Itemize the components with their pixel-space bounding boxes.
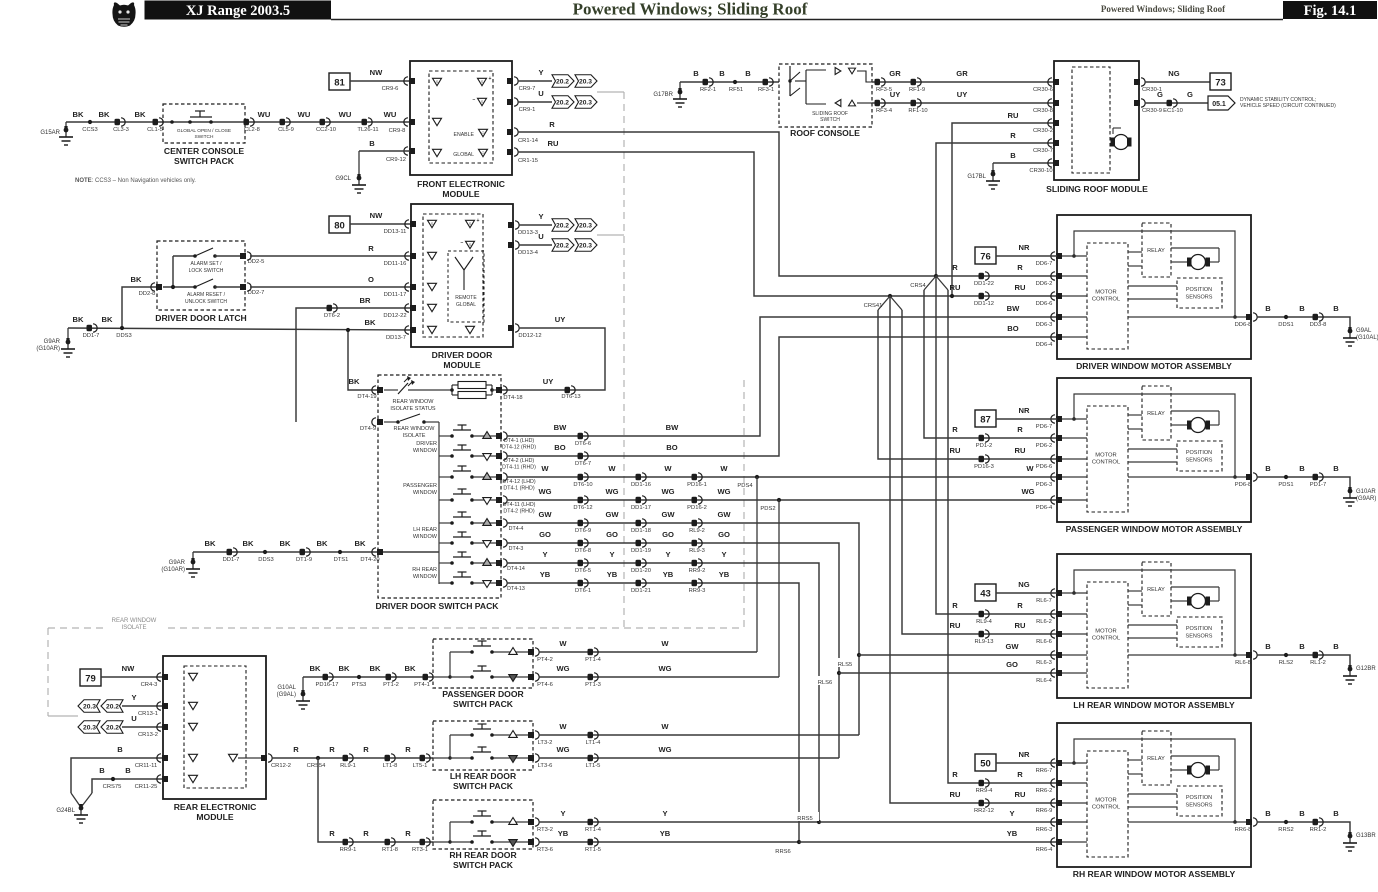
svg-text:BO: BO [1007, 324, 1018, 333]
pin RR6-7 [1036, 759, 1062, 774]
pin CR9-7 [507, 77, 535, 92]
svg-text:DT4-12 (RHD): DT4-12 (RHD) [502, 445, 536, 451]
svg-text:CRS75: CRS75 [103, 784, 122, 790]
svg-text:R: R [293, 745, 299, 754]
wire B to G9CL [359, 139, 410, 176]
wire BK/WU top row [66, 121, 410, 123]
svg-text:R: R [1017, 263, 1023, 272]
svg-text:GW: GW [661, 510, 675, 519]
svg-text:BO: BO [666, 443, 677, 452]
svg-text:CR30-7: CR30-7 [1033, 148, 1053, 154]
svg-text:PASSENGER DOOR: PASSENGER DOOR [442, 689, 524, 699]
lh rear window motor assembly motor control box [1087, 582, 1128, 688]
splice CRS54 [307, 756, 326, 769]
pin CR9-8 [389, 118, 415, 134]
svg-text:87: 87 [980, 415, 991, 426]
passenger window motor assembly motor [1187, 418, 1210, 433]
svg-text:RU: RU [1015, 790, 1026, 799]
rh rear window motor assembly relay box [1142, 731, 1171, 785]
svg-text:RU: RU [950, 446, 961, 455]
svg-text:RLS6: RLS6 [818, 680, 833, 686]
svg-text:B: B [1333, 464, 1339, 473]
pin CR9-12 [386, 147, 415, 163]
pin RT3-2 [528, 818, 553, 833]
passenger door switch pack box [433, 639, 533, 688]
svg-text:DT4-4: DT4-4 [509, 526, 524, 532]
svg-text:20.2: 20.2 [106, 724, 120, 731]
connector DT6-10 [573, 473, 592, 488]
svg-text:DD6-6: DD6-6 [1036, 301, 1053, 307]
svg-text:CCS3: CCS3 [82, 127, 97, 133]
switch pack common wire [438, 422, 440, 584]
svg-text:(G9AL): (G9AL) [277, 692, 296, 698]
wire YB to motor [799, 829, 1057, 842]
wire GO [507, 530, 839, 758]
svg-text:PD6-8: PD6-8 [1235, 482, 1251, 488]
pin DD6-2 [1036, 272, 1062, 287]
srm motor [1111, 128, 1132, 150]
wire B out [1257, 809, 1350, 834]
svg-text:POSITION: POSITION [1186, 795, 1212, 801]
svg-text:DD1-20: DD1-20 [631, 568, 651, 574]
svg-text:Y: Y [1009, 809, 1014, 818]
wire Y [519, 212, 552, 225]
svg-text:B: B [719, 69, 725, 78]
pin RR6-4 [1036, 838, 1062, 853]
pin CR9-1 [507, 98, 535, 113]
svg-text:PD16-1: PD16-1 [687, 482, 707, 488]
svg-text:Y: Y [538, 212, 543, 221]
svg-text:PT1-3: PT1-3 [585, 682, 601, 688]
svg-text:20.2: 20.2 [556, 242, 570, 249]
svg-text:B: B [1333, 809, 1339, 818]
svg-text:SWITCH PACK: SWITCH PACK [453, 781, 514, 791]
splice DTS1 [334, 550, 349, 563]
ddm triangle S+ [466, 218, 480, 228]
splice PDS4 [737, 475, 759, 489]
wire G [1145, 90, 1208, 103]
rear electronic module box [163, 656, 266, 799]
pin DD13-7 [386, 326, 416, 341]
ground G9AR upper [36, 328, 75, 357]
svg-text:DT4-2 (LHD): DT4-2 (LHD) [504, 458, 535, 464]
svg-text:RL6-7: RL6-7 [1036, 598, 1052, 604]
svg-text:RR6-9: RR6-9 [1036, 808, 1053, 814]
svg-text:SWITCH: SWITCH [195, 134, 214, 140]
svg-text:UNLOCK SWITCH: UNLOCK SWITCH [185, 299, 227, 305]
svg-text:BK: BK [73, 110, 84, 119]
label BK [355, 539, 366, 548]
connector RR1-2 [1310, 818, 1327, 833]
pin DT4-9 [360, 418, 383, 432]
svg-text:LT1-8: LT1-8 [383, 763, 398, 769]
fem triangle [433, 78, 442, 85]
svg-text:POSITION: POSITION [1186, 287, 1212, 293]
svg-text:DT4-12 (LHD): DT4-12 (LHD) [502, 479, 535, 485]
svg-text:05.1: 05.1 [1212, 101, 1226, 108]
svg-text:VEHICLE SPEED (CIRCUIT CONTINU: VEHICLE SPEED (CIRCUIT CONTINUED) [1240, 103, 1336, 109]
svg-text:G17BL: G17BL [967, 174, 986, 180]
svg-text:WG: WG [1021, 487, 1034, 496]
tag 20.3 [575, 96, 597, 109]
connector RR2-12 [974, 799, 994, 814]
wire R fan LH [936, 276, 1057, 614]
svg-text:79: 79 [85, 674, 96, 685]
pin CR30-9 [1134, 99, 1162, 114]
svg-text:RR6-8: RR6-8 [1235, 827, 1252, 833]
roof console box [779, 64, 872, 127]
svg-text:20.2: 20.2 [556, 78, 570, 85]
svg-text:W: W [559, 722, 567, 731]
rh rear window motor assembly box [1057, 723, 1251, 867]
switch row DT4-1 (LHD) [439, 425, 501, 438]
svg-text:SENSORS: SENSORS [1186, 803, 1213, 809]
svg-text:O: O [482, 131, 485, 135]
connector CL5-9 [278, 118, 294, 133]
svg-text:GR: GR [956, 69, 968, 78]
svg-text:WU: WU [258, 110, 271, 119]
pin DD2-5 [215, 252, 264, 265]
global open/close switch [170, 111, 231, 140]
pin CR30-8 [1033, 99, 1059, 114]
rh rear window motor assembly position sensors box [1177, 786, 1222, 816]
svg-text:RLS2: RLS2 [1279, 660, 1294, 666]
svg-text:B: B [1265, 809, 1271, 818]
svg-text:CR11-25: CR11-25 [135, 784, 158, 790]
svg-text:W: W [608, 464, 616, 473]
wire B [71, 745, 163, 793]
connector RR9-2 [689, 559, 706, 574]
pin DD6-7 [1036, 252, 1062, 267]
svg-text:DT6-8: DT6-8 [575, 548, 591, 554]
wire R rear [272, 745, 433, 758]
connector DD1-7 [83, 324, 100, 339]
wire R feed [952, 425, 1023, 434]
pin CR30-1 [1134, 78, 1162, 93]
svg-text:CR30-9: CR30-9 [1142, 108, 1162, 114]
svg-text:CR13-2: CR13-2 [138, 732, 158, 738]
svg-text:CR4-3: CR4-3 [141, 682, 158, 688]
connector DD1-19 [631, 539, 651, 554]
svg-text:NG: NG [1018, 580, 1029, 589]
wire NG [996, 580, 1057, 593]
wire R to RH door [318, 758, 433, 842]
connector DT6-8 [575, 539, 591, 554]
pin DD13-4 [508, 241, 539, 256]
svg-text:RU: RU [1008, 111, 1019, 120]
passenger door switches [433, 641, 533, 681]
svg-text:20.3: 20.3 [579, 222, 593, 229]
tag 20.3 [575, 239, 597, 252]
wire GO to motor [839, 660, 1057, 673]
pin DD11-16 [384, 252, 416, 267]
wire BK passenger [303, 676, 433, 678]
svg-text:WG: WG [538, 487, 551, 496]
svg-text:POSITION: POSITION [1186, 450, 1212, 456]
svg-text:G13BR: G13BR [1356, 833, 1376, 839]
svg-text:RR9-3: RR9-3 [689, 588, 706, 594]
svg-text:R: R [368, 244, 374, 253]
svg-text:G10AL: G10AL [277, 685, 296, 691]
svg-text:DT6-10: DT6-10 [573, 482, 592, 488]
wire BR [296, 296, 410, 422]
svg-text:W: W [664, 464, 672, 473]
svg-text:DD1-12: DD1-12 [974, 301, 994, 307]
svg-text:PT4-6: PT4-6 [537, 682, 553, 688]
svg-text:DT1-9: DT1-9 [296, 557, 312, 563]
driver door module box [411, 204, 513, 347]
svg-text:20.3: 20.3 [579, 99, 593, 106]
svg-text:R: R [405, 829, 411, 838]
label BK [317, 539, 328, 548]
svg-text:BK: BK [102, 315, 113, 324]
svg-text:BK: BK [99, 110, 110, 119]
pin RL6-7 [1036, 589, 1062, 604]
ddm triangle [428, 252, 437, 259]
wire RU feed [950, 790, 1026, 799]
svg-text:GO: GO [718, 530, 730, 539]
pin PT4-2 [528, 648, 553, 663]
circuit ref 43 [975, 584, 996, 601]
svg-text:BK: BK [280, 539, 291, 548]
svg-text:YB: YB [540, 570, 551, 579]
wire WG [539, 745, 839, 758]
lh rear door switch pack box [433, 721, 533, 770]
fem triangle S- [473, 97, 487, 106]
svg-text:RELAY: RELAY [1147, 756, 1165, 762]
gray dashed net rear window isolate [48, 92, 744, 716]
svg-text:MOTOR: MOTOR [1095, 798, 1116, 804]
svg-text:DT4-20: DT4-20 [360, 557, 379, 563]
svg-text:20.3: 20.3 [83, 703, 97, 710]
svg-text:DT4-14: DT4-14 [507, 566, 525, 572]
label dynamic stability [1240, 97, 1336, 109]
splice RRS2 [1278, 820, 1293, 833]
svg-text:CR9-6: CR9-6 [382, 86, 399, 92]
connector RL1-2 [1310, 651, 1326, 666]
svg-text:B: B [1333, 304, 1339, 313]
splice DDS3 [116, 326, 131, 339]
wire W [539, 639, 757, 652]
svg-text:PT4-2: PT4-2 [537, 657, 553, 663]
connector DT6-13 [561, 386, 580, 400]
svg-text:RR2-12: RR2-12 [974, 808, 994, 814]
connector DT6-2 [324, 304, 340, 319]
fem triangle [433, 149, 442, 156]
svg-text:B: B [1299, 304, 1305, 313]
lh rear door switches [433, 724, 533, 762]
svg-text:DD2-7: DD2-7 [248, 290, 265, 296]
svg-text:RU: RU [950, 621, 961, 630]
svg-text:YB: YB [558, 829, 569, 838]
svg-text:LH REAR: LH REAR [413, 527, 437, 533]
wire BK to DT4-20 [193, 551, 439, 553]
note ccs3 [75, 178, 196, 184]
connector PD16-1 [687, 473, 707, 488]
wire NR [996, 406, 1057, 419]
driver window motor assembly motor [1187, 255, 1210, 270]
splice RLS5 [832, 653, 861, 668]
svg-text:RLS5: RLS5 [838, 662, 853, 668]
connector PD16-17 [316, 673, 339, 688]
svg-text:RELAY: RELAY [1147, 587, 1165, 593]
connector DD3-8 [1310, 313, 1327, 328]
rem triangle [189, 775, 198, 782]
pin CR1-14 [507, 128, 539, 144]
connector LT1-5 [586, 754, 601, 769]
pin RT3-6 [528, 838, 553, 853]
svg-text:(G10AL): (G10AL) [1356, 335, 1378, 341]
svg-text:GW: GW [717, 510, 731, 519]
svg-text:NOTE: CCS3 – Non Navigation ve: NOTE: CCS3 – Non Navigation vehicles onl… [75, 178, 196, 184]
svg-text:G9AR: G9AR [44, 339, 61, 345]
svg-text:CONTROL: CONTROL [1092, 805, 1121, 811]
svg-text:RU: RU [1015, 283, 1026, 292]
wire W [539, 722, 859, 735]
svg-text:R: R [1010, 131, 1016, 140]
svg-text:G: G [1157, 90, 1163, 99]
svg-text:SWITCH PACK: SWITCH PACK [174, 156, 235, 166]
rh rear window motor assembly internal wires [1057, 739, 1251, 842]
svg-text:Powered Windows; Sliding Roof: Powered Windows; Sliding Roof [1101, 4, 1226, 14]
label front electronic module [417, 179, 505, 199]
svg-text:50: 50 [980, 759, 991, 770]
svg-text:WINDOW: WINDOW [413, 490, 438, 496]
svg-text:Y: Y [542, 550, 547, 559]
tag 05.1 [1208, 96, 1235, 110]
svg-text:20.2: 20.2 [556, 222, 570, 229]
svg-text:CR30-8: CR30-8 [1033, 108, 1053, 114]
svg-text:DT4-18: DT4-18 [503, 395, 522, 401]
pin PD6-3 [1036, 473, 1062, 488]
svg-text:NW: NW [370, 68, 383, 77]
svg-text:BK: BK [135, 110, 146, 119]
svg-text:20.2: 20.2 [556, 99, 570, 106]
svg-text:PD1-2: PD1-2 [976, 443, 992, 449]
pin PD6-2 [1036, 434, 1062, 449]
svg-text:G: G [1187, 90, 1193, 99]
ddm triangle uy [466, 326, 475, 333]
svg-text:Y: Y [662, 809, 667, 818]
svg-text:DT4-3: DT4-3 [509, 546, 524, 552]
svg-text:DRIVER DOOR: DRIVER DOOR [432, 350, 493, 360]
svg-text:DDS1: DDS1 [1278, 322, 1293, 328]
splice RRS6 [770, 840, 801, 855]
svg-text:G12BR: G12BR [1356, 666, 1376, 672]
svg-text:BK: BK [205, 539, 216, 548]
svg-text:BW: BW [554, 423, 567, 432]
circuit ref 87 [975, 410, 996, 427]
svg-text:YB: YB [719, 570, 730, 579]
svg-text:R: R [329, 745, 335, 754]
label BK [102, 315, 113, 324]
lh rear window motor assembly position sensors box [1177, 617, 1222, 647]
svg-text:G17BR: G17BR [653, 92, 673, 98]
svg-text:FRONT ELECTRONIC: FRONT ELECTRONIC [417, 179, 505, 189]
ground G9CL [335, 174, 366, 193]
wire B 2 [92, 766, 163, 793]
pin RR6-2 [1036, 779, 1062, 794]
circuit ref 79 [80, 669, 101, 686]
svg-text:20.3: 20.3 [579, 242, 593, 249]
svg-text:GLOBAL: GLOBAL [456, 302, 476, 308]
rh rear door switch pack box [433, 800, 533, 849]
svg-text:ALARM SET /: ALARM SET / [190, 261, 222, 267]
svg-text:R: R [952, 263, 958, 272]
rh rear window motor assembly motor control box [1087, 751, 1128, 857]
pin PT4-6 [528, 673, 553, 688]
pin CR12-2 [261, 754, 291, 769]
pin DT4-18 [496, 386, 523, 401]
passenger window motor assembly box [1057, 378, 1251, 522]
pin DD12-12 [508, 324, 542, 339]
rem triangle [189, 702, 198, 709]
connector DT6-9 [575, 519, 591, 534]
svg-text:DD13-3: DD13-3 [518, 230, 538, 236]
remote global antenna [455, 257, 477, 308]
svg-text:DD6-3: DD6-3 [1036, 322, 1053, 328]
svg-text:RT1-5: RT1-5 [585, 847, 601, 853]
connector DT1-9 [296, 548, 312, 563]
wire NW [101, 664, 163, 677]
svg-text:DD1-7: DD1-7 [223, 557, 240, 563]
svg-text:B: B [745, 69, 751, 78]
svg-text:R: R [549, 120, 555, 129]
node CRS4 [905, 274, 948, 290]
connector RF3-1 [758, 78, 774, 93]
pin RR6-8 [1235, 818, 1258, 833]
tag 20.3 [575, 219, 597, 232]
svg-text:B: B [1299, 642, 1305, 651]
pin CR11-11 [135, 754, 168, 769]
connector RT1-4 [585, 818, 602, 833]
srm inner dashed [1072, 67, 1110, 173]
label rh rear door switch pack [449, 850, 517, 870]
wire GW [507, 510, 859, 735]
ddm triangle [428, 326, 437, 333]
wire R from FEM [518, 120, 936, 276]
svg-text:RR6-2: RR6-2 [1036, 788, 1053, 794]
wire B out [1257, 464, 1350, 489]
switch row DT4-14 [439, 552, 501, 565]
svg-text:WU: WU [384, 110, 397, 119]
svg-text:DT4-13: DT4-13 [507, 586, 525, 592]
connector DD1-7 [223, 548, 240, 563]
svg-text:DD1-18: DD1-18 [631, 528, 651, 534]
svg-text:80: 80 [334, 221, 345, 232]
svg-text:DD3-8: DD3-8 [1310, 322, 1327, 328]
svg-text:R: R [1017, 601, 1023, 610]
svg-text:CR11-11: CR11-11 [135, 763, 157, 769]
svg-text:(G10AR): (G10AR) [36, 346, 60, 352]
svg-text:CL3-3: CL3-3 [113, 127, 129, 133]
svg-text:S: S [481, 100, 484, 104]
svg-text:DRIVER: DRIVER [416, 441, 437, 447]
connector DD1-21 [631, 579, 651, 594]
lh rear window motor assembly box [1057, 554, 1251, 698]
alarm set lock switch [189, 248, 224, 274]
svg-text:BK: BK [310, 664, 321, 673]
svg-text:G9AL: G9AL [1356, 328, 1372, 334]
svg-text:PD6-4: PD6-4 [1036, 505, 1053, 511]
splice PTS3 [352, 675, 367, 688]
svg-text:GLOBAL: GLOBAL [453, 152, 474, 158]
label rh rear window [412, 567, 438, 580]
svg-text:Powered Windows; Sliding Roof: Powered Windows; Sliding Roof [573, 0, 808, 19]
svg-text:NR: NR [1019, 406, 1030, 415]
svg-text:CR30-2: CR30-2 [1033, 128, 1053, 134]
tag 20.3 [78, 700, 100, 713]
